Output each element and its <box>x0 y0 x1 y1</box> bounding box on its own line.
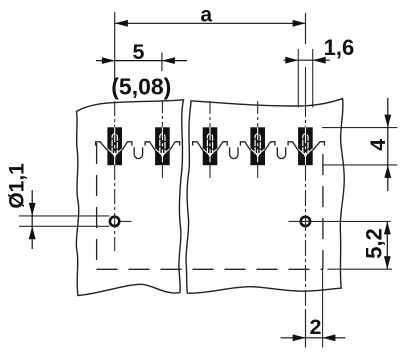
contact clamp hook between pads 1-2 <box>134 147 142 158</box>
solder lug wings pad 1 <box>96 142 108 151</box>
svg-text:2: 2 <box>310 315 322 339</box>
svg-text:1,6: 1,6 <box>324 35 355 60</box>
svg-text:4: 4 <box>366 139 390 151</box>
dimension diameter 1,1 (hole) <box>6 163 132 249</box>
centerline pad/hole column 1 <box>114 12 116 97</box>
contact clamp hook between pads 3-4 <box>230 147 238 158</box>
centerline pad column 4 <box>257 101 259 127</box>
dimension 1,6 <box>284 35 355 63</box>
housing outline left edge (dashed) <box>96 143 98 269</box>
solder pad 4 <box>250 127 265 165</box>
svg-text:5: 5 <box>133 40 145 64</box>
dimension 5,2 <box>289 221 393 269</box>
centerline pad column 3 <box>209 101 211 127</box>
housing outline bottom edge (dashed) <box>97 268 323 270</box>
solder pad 5 <box>298 127 313 165</box>
svg-text:5,2: 5,2 <box>361 228 386 259</box>
solder lug wings pad 3 <box>193 142 203 151</box>
centerline pad column 2 <box>161 53 163 72</box>
dimension a <box>115 4 306 27</box>
svg-text:(5,08): (5,08) <box>111 73 171 99</box>
dimension 2 <box>281 269 346 347</box>
mounting hole left <box>110 217 119 226</box>
dimension 4 (pad height) <box>322 98 398 191</box>
svg-text:a: a <box>200 4 212 27</box>
extension lines for 1,6 (pad 5 edges) <box>297 49 299 108</box>
board piece left (torn PCB outline) <box>76 100 183 296</box>
solder lug wings pad 5 <box>288 142 298 151</box>
board piece right (torn PCB outline) <box>186 99 344 294</box>
solder pad 2 <box>155 127 170 165</box>
contact clamp hook between pads 4-5 <box>277 147 285 158</box>
svg-text:Ø1,1: Ø1,1 <box>6 163 29 209</box>
solder pad 1 <box>107 127 122 165</box>
dimension 5 <box>96 40 187 64</box>
solder lug wings pad 2 <box>145 142 155 151</box>
solder pad 3 <box>203 127 218 165</box>
mounting hole right <box>301 217 310 226</box>
centerline pad/hole column 5 <box>305 13 307 44</box>
housing outline right edge (dashed) <box>322 154 324 269</box>
solder lug wings pad 4 <box>240 142 250 151</box>
